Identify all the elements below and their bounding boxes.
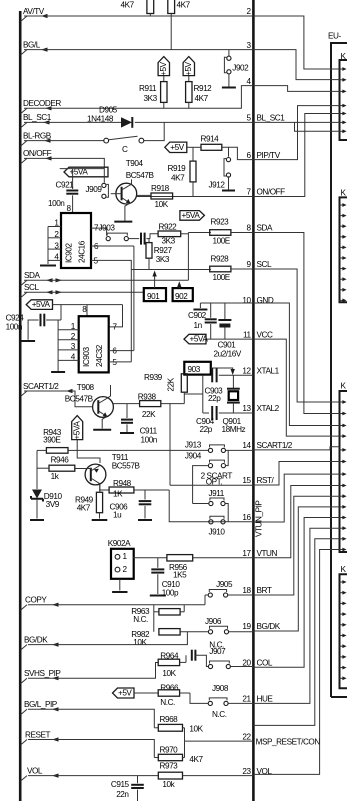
wire +5VA/R943 node to J913 (pin14 net) (77, 449, 208, 451)
connector pin arrows (340, 68, 344, 70)
svg-text:R928: R928 (211, 255, 230, 264)
wire C903/C904 common rail (202, 375, 204, 413)
svg-text:2u2/16V: 2u2/16V (214, 350, 242, 359)
svg-text:J905: J905 (216, 580, 233, 589)
svg-text:BL_SC1: BL_SC1 (23, 113, 52, 122)
resistor R928 100E (210, 266, 231, 272)
svg-text:R939: R939 (144, 373, 163, 382)
svg-text:4K7: 4K7 (177, 1, 191, 10)
svg-text:GND: GND (257, 296, 274, 305)
resistor R918 10K (151, 193, 173, 199)
svg-text:J911: J911 (209, 489, 225, 498)
wire pin7 ON/OFF to conn A5 (253, 114, 339, 197)
wire SDA vertical (IC902 pin6 to IC903 pin6) (133, 246, 135, 351)
page ref box 901 (144, 288, 166, 301)
resistor 4K7 (top right, cut) (168, 0, 175, 14)
capacitor C901 2u2/16V (electrolytic) (224, 303, 226, 319)
wire COPY to J905 (28, 604, 205, 606)
svg-text:BRT: BRT (257, 586, 272, 595)
svg-text:1N4148: 1N4148 (87, 114, 114, 123)
svg-text:R923: R923 (211, 218, 230, 227)
svg-text:11: 11 (243, 330, 251, 339)
switch C (104, 138, 109, 143)
svg-text:12: 12 (242, 367, 251, 376)
wire pin5 to conn A6/A7 (253, 121, 339, 123)
svg-text:N.C.: N.C. (160, 698, 175, 707)
svg-text:15: 15 (242, 476, 251, 485)
svg-text:J907: J907 (209, 647, 226, 656)
svg-text:901: 901 (147, 292, 160, 301)
resistor R923 100E (188, 232, 211, 234)
svg-text:R948: R948 (113, 479, 132, 488)
page ref box 902 (173, 288, 193, 301)
svg-text:3K3: 3K3 (162, 237, 176, 246)
svg-text:+5VA: +5VA (32, 300, 51, 309)
svg-text:22K: 22K (167, 377, 176, 391)
svg-text:J912: J912 (209, 181, 226, 190)
resistor R949 4K7 (96, 492, 102, 512)
connector inner box C1 (340, 391, 347, 552)
supply flag +5VA (R943) (72, 416, 83, 440)
svg-text:R911: R911 (139, 84, 157, 93)
svg-text:22p: 22p (200, 425, 213, 434)
svg-text:4K7: 4K7 (121, 1, 135, 10)
wire R938 node to RST rail (169, 404, 171, 486)
svg-text:COPY: COPY (25, 596, 47, 605)
wire VOL to conn C1-12 (253, 550, 339, 775)
svg-text:100n: 100n (6, 323, 23, 332)
svg-text:1n: 1n (194, 321, 203, 330)
svg-text:BG/L: BG/L (23, 40, 41, 49)
resistor R914 (201, 144, 222, 150)
svg-text:SCART1/2: SCART1/2 (257, 441, 293, 450)
svg-text:10K: 10K (162, 669, 176, 678)
wire BG/DK to conn C1-8 (253, 507, 339, 631)
svg-text:+5V: +5V (159, 61, 168, 75)
svg-text:+5VA: +5VA (73, 421, 82, 440)
svg-text:100n: 100n (48, 199, 65, 208)
diode D905 1N4148 (121, 117, 132, 127)
svg-text:22p: 22p (208, 394, 221, 403)
svg-text:AV/TV: AV/TV (23, 7, 45, 16)
svg-text:VTUN_PIP: VTUN_PIP (255, 500, 264, 537)
resistor R948 1K (103, 489, 109, 491)
svg-text:+5V: +5V (118, 689, 132, 698)
svg-text:21: 21 (242, 695, 251, 704)
svg-text:HUE: HUE (257, 695, 274, 704)
svg-text:+5VA: +5VA (182, 211, 201, 220)
svg-text:C915: C915 (111, 780, 130, 789)
wire MSP_RESET/CON to conn C1-11 (253, 539, 339, 726)
svg-text:R918: R918 (151, 184, 170, 193)
svg-text:14: 14 (242, 441, 251, 450)
wire SCL line (IC pin5 to R928) (131, 269, 211, 271)
wire SCL to conn C1-1 (253, 269, 339, 402)
svg-text:BC557B: BC557B (112, 462, 141, 471)
svg-text:J904: J904 (185, 451, 202, 460)
wire VCC to conn C1-2 (253, 339, 339, 436)
resistor 4K7 (top left, cut) (147, 0, 154, 14)
jumper J910 (209, 520, 213, 524)
resistor R956 1K5 (167, 555, 193, 561)
resistor R912 4K7 (188, 76, 190, 82)
wire BRT to conn C1-7 (253, 496, 339, 595)
wire DECODER to pin4 (24, 86, 253, 109)
svg-text:C902: C902 (188, 311, 207, 320)
svg-text:K902A: K902A (108, 539, 131, 548)
svg-text:BC547B: BC547B (126, 171, 155, 180)
wire SDA line (24, 279, 188, 281)
supply flag +5V (BL-RGB) (165, 142, 187, 152)
capacitor (J903 series) (129, 238, 140, 240)
svg-text:10k: 10k (162, 780, 175, 789)
wire R923/R922 junction down to SDA (187, 233, 189, 281)
svg-text:13: 13 (242, 404, 251, 413)
SDA/SCL bidirectional arrows (46, 278, 53, 282)
svg-text:1K5: 1K5 (173, 571, 187, 580)
supply flag +5V (R912) (183, 57, 194, 76)
supply flag +5VA (VCC) (184, 334, 206, 344)
svg-text:SCART1/2: SCART1/2 (23, 382, 59, 391)
svg-text:10K: 10K (189, 725, 203, 734)
central harness bus (252, 0, 255, 801)
wire RESET riser (28, 740, 154, 758)
wire RST/ pin15 (170, 484, 253, 486)
jumper J912 (228, 147, 230, 157)
wire SCL vertical (to IC903 pin5) (130, 270, 132, 362)
wire SVHS_PIP riser (28, 663, 158, 679)
svg-text:24C32: 24C32 (95, 344, 104, 367)
svg-text:VOL: VOL (27, 766, 43, 775)
svg-text:17: 17 (242, 549, 251, 558)
svg-text:RST/: RST/ (257, 476, 275, 485)
svg-text:22K: 22K (142, 410, 156, 419)
svg-text:C910: C910 (162, 580, 181, 589)
wire T904 collector to R918 (137, 194, 151, 196)
wire SCART1/2 to conn C1-3 (253, 447, 339, 450)
svg-text:10K: 10K (133, 638, 147, 647)
wire 903 to XTAL1 (211, 368, 233, 369)
zener D910 3V9 (36, 450, 38, 489)
svg-text:18MHz: 18MHz (222, 425, 246, 434)
svg-text:ON/OFF: ON/OFF (257, 188, 286, 197)
wire BG/L to pin3 (24, 49, 253, 51)
capacitor N.C. (R964) (185, 655, 187, 662)
svg-text:COL: COL (257, 658, 273, 667)
capacitor C921 100n (72, 169, 74, 189)
wire HUE to conn C1-10 (253, 528, 339, 703)
svg-text:+5V: +5V (170, 143, 184, 152)
wire AV/TV to pin2 (24, 15, 253, 17)
svg-text:VCC: VCC (257, 330, 273, 339)
capacitor C911 100n (126, 404, 128, 418)
supply flag +5V (R911) (158, 57, 169, 76)
supply flag +5VA (R923/R928) (180, 211, 205, 221)
svg-text:J903: J903 (99, 224, 116, 233)
svg-text:IC903: IC903 (82, 347, 91, 367)
jumper J909 (102, 183, 106, 187)
svg-text:R922: R922 (159, 222, 178, 231)
svg-text:T904: T904 (126, 159, 144, 168)
wire pin16 to conn C1-5 (253, 474, 339, 522)
svg-text:T911: T911 (112, 453, 129, 462)
svg-text:R973: R973 (160, 762, 179, 771)
svg-text:1k: 1k (51, 472, 60, 481)
svg-text:390E: 390E (43, 436, 61, 445)
wire pin4 to conn A3 (253, 86, 339, 92)
capacitor C910 100p (157, 558, 159, 568)
svg-text:R914: R914 (201, 135, 220, 144)
resistor R966 N.C. (134, 692, 158, 694)
svg-text:16: 16 (242, 513, 251, 522)
wire SDA to conn C1-2 (253, 233, 339, 414)
wire R948 to pin16 (169, 490, 253, 522)
svg-text:4K7: 4K7 (189, 755, 203, 764)
wire K902A pin1 to VTUN (133, 557, 167, 559)
svg-text:4K7: 4K7 (171, 174, 185, 183)
svg-text:N.C.: N.C. (133, 615, 148, 624)
svg-text:J910: J910 (209, 528, 226, 537)
svg-text:R968: R968 (160, 715, 179, 724)
wire ON/OFF pin7 line (137, 196, 253, 198)
supply flag +5VA (T904 area) (64, 167, 108, 177)
svg-text:1u: 1u (113, 511, 122, 520)
svg-text:R919: R919 (168, 164, 187, 173)
capacitor C906 1u (144, 490, 146, 500)
svg-text:R912: R912 (194, 84, 213, 93)
IC IC902 24C16 (61, 213, 91, 268)
svg-text:N.C.: N.C. (212, 710, 227, 719)
connector inner box A (340, 60, 347, 140)
svg-text:100E: 100E (213, 236, 231, 245)
svg-text:MSP_RESET/CON: MSP_RESET/CON (256, 738, 321, 747)
svg-text:BG/L_PIP: BG/L_PIP (24, 700, 58, 709)
svg-text:3V9: 3V9 (46, 500, 60, 509)
svg-text:100E: 100E (213, 273, 231, 282)
svg-text:J902: J902 (232, 64, 249, 73)
svg-text:XTAL1: XTAL1 (257, 367, 280, 376)
svg-text:SDA: SDA (24, 271, 40, 280)
wire VCC pin11 (206, 338, 253, 340)
wire SCART1/2 to T908 base (24, 391, 92, 407)
svg-text:100n: 100n (141, 436, 158, 445)
wire BL-RGB to switch C (24, 140, 104, 142)
svg-text:+5VA: +5VA (190, 335, 209, 344)
svg-text:22: 22 (242, 732, 251, 741)
wire pin2 to conn A1 (253, 16, 339, 69)
wire COPY branch down (153, 605, 155, 632)
wire +5V flag to R914 (187, 146, 201, 148)
resistor R927 3K3 (148, 239, 150, 243)
svg-text:4K7: 4K7 (77, 504, 91, 513)
wire SCL label line (24, 291, 144, 293)
resistor R911 3K3 (163, 76, 165, 82)
svg-text:J908: J908 (212, 684, 229, 693)
svg-text:23: 23 (242, 767, 251, 776)
wire switch C to +5V node (144, 122, 164, 140)
wire pin22 MSP_RESET/CON (185, 740, 254, 742)
resistor R922 3K3 (158, 231, 181, 237)
wire GND pin10 (200, 302, 253, 304)
svg-text:BC547B: BC547B (65, 395, 94, 404)
wire BG/DK riser to J906 (28, 632, 187, 645)
svg-text:ON/OFF: ON/OFF (23, 149, 52, 158)
svg-text:SCL: SCL (257, 260, 272, 269)
svg-text:J909: J909 (86, 185, 103, 194)
jumper J902 (228, 50, 230, 56)
svg-text:C: C (122, 145, 128, 154)
svg-text:R946: R946 (51, 456, 70, 465)
resistor R939 22K (181, 374, 187, 392)
wire pin6 PIP/TV to conn A4 (253, 106, 339, 160)
wire COL to conn C1-9 (253, 518, 339, 668)
crystal Q901 18MHz (232, 375, 234, 388)
connector outer box EU-SCART module (331, 43, 347, 697)
svg-text:902: 902 (175, 292, 188, 301)
svg-text:22n: 22n (116, 790, 129, 799)
svg-text:C921: C921 (56, 181, 75, 190)
wire BL_SC1 to pin5 (24, 121, 121, 123)
svg-text:903: 903 (188, 365, 201, 374)
svg-text:R927: R927 (154, 246, 173, 255)
svg-text:4K7: 4K7 (195, 94, 209, 103)
svg-text:VTUN: VTUN (257, 549, 278, 558)
svg-text:R938: R938 (138, 392, 157, 401)
connector inner box B (340, 197, 347, 302)
wire XTAL2 pin13 (203, 412, 209, 414)
capacitor C915 22n (137, 776, 139, 784)
svg-text:EU-: EU- (328, 32, 341, 41)
svg-text:C901: C901 (218, 341, 237, 350)
wire R914 to pin6 (222, 147, 254, 159)
svg-text:+5V: +5V (184, 61, 193, 75)
svg-text:18: 18 (242, 586, 251, 595)
capacitor C924 100n (60, 305, 62, 320)
svg-text:IC902: IC902 (65, 243, 74, 263)
svg-text:10: 10 (242, 296, 251, 305)
svg-text:1K: 1K (113, 490, 123, 499)
wire +5VA to IC903 pin7/pin8 (53, 304, 123, 306)
svg-text:J906: J906 (205, 617, 222, 626)
wire GND to conn C1-1 (253, 303, 339, 426)
svg-text:R970: R970 (160, 746, 179, 755)
svg-text:C924: C924 (6, 314, 25, 323)
svg-text:BL_SC1: BL_SC1 (257, 114, 286, 123)
svg-text:BG/DK: BG/DK (257, 622, 281, 631)
wire pin3 to conn A2 (253, 50, 339, 80)
svg-text:DECODER: DECODER (23, 99, 61, 108)
svg-text:RESET: RESET (25, 730, 50, 739)
supply flag +5V (R966) (113, 688, 135, 698)
svg-text:10K: 10K (155, 200, 169, 209)
svg-text:T908: T908 (77, 383, 95, 392)
svg-text:24C16: 24C16 (78, 240, 87, 263)
svg-text:19: 19 (242, 622, 251, 631)
connector inner box C2 (340, 574, 347, 688)
wire +5VA to J909 (60, 168, 105, 170)
svg-text:100p: 100p (162, 589, 179, 598)
wire ON/OFF to J909 (24, 158, 104, 168)
wire VTUN to conn C1-6 (253, 486, 339, 558)
svg-text:BG/DK: BG/DK (24, 635, 48, 644)
left signal bus (19, 11, 22, 801)
resistor R938 22K (113, 403, 139, 405)
svg-text:C911: C911 (140, 427, 158, 436)
svg-text:BL-RGB: BL-RGB (23, 131, 52, 140)
wire BG/L_PIP riser (28, 709, 154, 728)
svg-text:D905: D905 (99, 106, 118, 115)
svg-text:SVHS_PIP: SVHS_PIP (24, 669, 61, 678)
capacitor C902 1n (210, 303, 212, 318)
IC IC903 24C32 (79, 316, 109, 372)
resistor R919 4K7 (192, 147, 194, 161)
svg-text:R966: R966 (160, 684, 179, 693)
svg-text:SDA: SDA (257, 224, 273, 233)
page ref box 903 (184, 362, 211, 375)
svg-text:3K3: 3K3 (156, 255, 170, 264)
wire XTAL1 pin12 (203, 374, 209, 376)
svg-text:SCL: SCL (24, 283, 39, 292)
wire RST/ to conn C1-4 (253, 462, 339, 486)
svg-text:J913: J913 (185, 440, 202, 449)
svg-text:3K3: 3K3 (144, 94, 158, 103)
svg-text:PIP/TV: PIP/TV (257, 151, 281, 160)
svg-text:XTAL2: XTAL2 (257, 404, 280, 413)
supply flag +5VA (IC903) (26, 300, 52, 310)
